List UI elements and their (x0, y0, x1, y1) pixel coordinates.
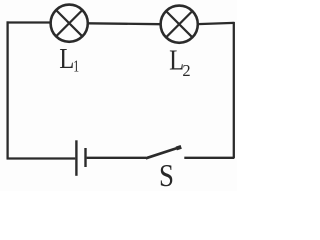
switch S lever (146, 147, 181, 158)
label L2 (169, 44, 190, 80)
lamp L1 (51, 5, 88, 42)
label L1 (59, 42, 79, 76)
wire battery-to-switch segment (87, 157, 146, 159)
svg-text:1: 1 (73, 58, 79, 77)
lamp L2 (161, 6, 198, 43)
wire between lamps (88, 22, 161, 25)
battery B1 (76, 140, 85, 176)
wire left vertical (6, 21, 8, 158)
svg-text:L: L (59, 42, 74, 74)
label S (159, 159, 174, 194)
wire right vertical (233, 22, 235, 158)
svg-text:S: S (159, 159, 174, 191)
wire bottom-right segment (184, 157, 234, 159)
svg-text:2: 2 (182, 61, 190, 80)
wire bottom-left segment (7, 157, 76, 159)
wire top-right segment (198, 23, 234, 24)
wire top-left segment (7, 21, 52, 23)
